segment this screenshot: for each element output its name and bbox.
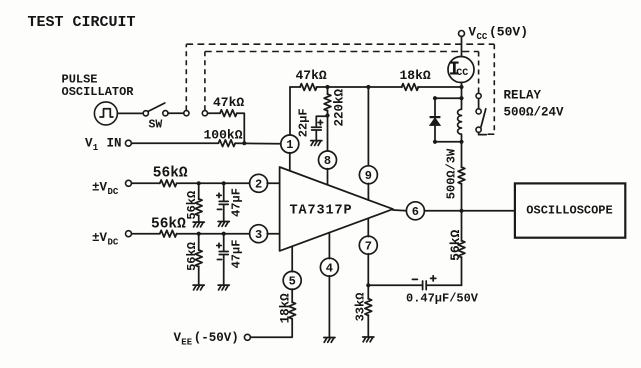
- relay coil box top: [435, 97, 462, 99]
- ground (33k): [363, 337, 374, 342]
- svg-text:OSCILLOSCOPE: OSCILLOSCOPE: [526, 204, 612, 218]
- pin 2: [250, 174, 268, 192]
- svg-text:0.47μF/50V: 0.47μF/50V: [406, 291, 479, 305]
- pin 6: [393, 209, 407, 212]
- ground (upper 56k): [193, 222, 204, 227]
- pin 5: [283, 271, 301, 289]
- svg-text:3: 3: [255, 228, 262, 242]
- wire switch D to 47k: [208, 112, 221, 114]
- wire oscillator to switch: [117, 112, 143, 114]
- ground (lower 47μF): [218, 285, 229, 290]
- terminal VCC: [459, 31, 465, 37]
- wire pin8 to op-amp: [327, 169, 329, 185]
- dashed mechanical link inner: [204, 52, 206, 111]
- resistor 220kΩ: [327, 87, 329, 94]
- node link contact C: [184, 111, 189, 116]
- dashed mechanical link outer: [185, 44, 187, 110]
- wire op-amp to pin7: [367, 218, 369, 236]
- resistor 56kΩ (node6): [461, 211, 463, 241]
- meter ICC: [448, 57, 474, 83]
- svg-text:V: V: [174, 331, 182, 345]
- svg-text:V: V: [469, 26, 477, 40]
- wire pin7 down: [367, 254, 369, 285]
- wire pin1 to top rail: [289, 87, 291, 136]
- svg-text:8: 8: [324, 154, 331, 168]
- svg-text:5: 5: [289, 275, 296, 289]
- svg-text:56kΩ: 56kΩ: [185, 242, 199, 271]
- resistor 33kΩ: [367, 285, 369, 299]
- wire to pin2: [177, 182, 250, 184]
- switch SW: [143, 111, 148, 116]
- resistor 56kΩ (upper shunt): [198, 183, 200, 199]
- wire pin3 to op-amp: [267, 233, 279, 235]
- svg-text:DC: DC: [108, 238, 119, 248]
- wire op-amp to pin4: [328, 233, 330, 259]
- wire relay to 500 ohm resistor: [461, 142, 463, 168]
- resistor 56kΩ (lower series): [160, 230, 177, 237]
- pin 7: [359, 236, 377, 254]
- wire V1 IN: [131, 142, 218, 144]
- relay contact top: [476, 93, 481, 98]
- svg-text:TEST CIRCUIT: TEST CIRCUIT: [28, 14, 136, 31]
- pulse oscillator source: [94, 102, 117, 125]
- node link contact D: [202, 111, 207, 116]
- svg-text:22μF: 22μF: [296, 108, 310, 137]
- capacitor 22μF: [316, 116, 327, 126]
- junction 47k/100k: [242, 141, 246, 145]
- svg-text:56kΩ: 56kΩ: [151, 217, 186, 233]
- svg-text:V: V: [85, 136, 93, 150]
- junction rail/ICC: [459, 85, 463, 89]
- pin 3: [250, 225, 268, 243]
- resistor 100kΩ: [218, 140, 235, 147]
- wire VDC lower: [132, 233, 160, 235]
- svg-text:56kΩ: 56kΩ: [185, 191, 199, 220]
- svg-text:IN: IN: [107, 136, 122, 150]
- wire 47k to junction: [237, 113, 245, 143]
- relay contact blade: [481, 109, 486, 127]
- wire pin2 to op-amp: [267, 182, 279, 184]
- svg-text:33kΩ: 33kΩ: [354, 293, 368, 322]
- svg-text:9: 9: [365, 169, 372, 183]
- wire contact bottom: [479, 132, 487, 134]
- relay contact bottom: [476, 127, 481, 132]
- svg-text:47kΩ: 47kΩ: [213, 95, 244, 110]
- wire 500 ohm to node6 rail: [461, 184, 463, 211]
- svg-text:47μF: 47μF: [230, 240, 244, 269]
- terminal VEE: [244, 334, 250, 340]
- top rail wire: [290, 86, 462, 88]
- svg-text:18kΩ: 18kΩ: [279, 293, 293, 324]
- svg-text:47μF: 47μF: [230, 188, 244, 217]
- wire switch link: [168, 112, 184, 114]
- wire pin9 to op-amp: [367, 183, 369, 200]
- relay contact middle: [476, 109, 481, 114]
- terminal V1 IN: [125, 140, 131, 146]
- wire 100k to pin1: [235, 142, 281, 145]
- resistor 56kΩ (lower shunt): [198, 234, 200, 251]
- svg-text:(50V): (50V): [489, 25, 528, 40]
- svg-text:4: 4: [326, 261, 333, 275]
- junction 220k/22uF: [325, 113, 329, 117]
- oscilloscope box: [515, 183, 625, 237]
- resistor 47kΩ (switch branch): [220, 110, 237, 117]
- svg-text:100kΩ: 100kΩ: [204, 128, 243, 143]
- pin 8: [319, 151, 337, 169]
- svg-text:56kΩ: 56kΩ: [153, 166, 188, 182]
- wire pin4 to ground: [328, 276, 330, 337]
- wire VDC upper: [132, 182, 160, 184]
- svg-text:SW: SW: [149, 119, 163, 132]
- capacitor 0.47μF/50V: [426, 284, 461, 286]
- op-amp TA7317P: [280, 167, 393, 251]
- svg-text:6: 6: [412, 205, 419, 219]
- svg-text:DC: DC: [108, 187, 119, 197]
- pin 1: [281, 135, 299, 153]
- svg-text:RELAY: RELAY: [504, 89, 542, 103]
- svg-text:±V: ±V: [92, 181, 108, 195]
- pin 9: [359, 166, 377, 184]
- resistor 56kΩ (upper series): [160, 180, 177, 187]
- junction rail/220k: [325, 85, 329, 89]
- ground (upper 47μF): [218, 222, 229, 227]
- ground (22μF): [311, 141, 322, 146]
- relay coil: [458, 98, 462, 142]
- svg-text:500Ω/24V: 500Ω/24V: [504, 106, 565, 120]
- svg-text:EE: EE: [181, 338, 192, 348]
- svg-text:18kΩ: 18kΩ: [400, 68, 431, 83]
- capacitor 47μF (upper): [223, 183, 225, 200]
- wire to pin3: [177, 233, 250, 235]
- svg-text:OSCILLATOR: OSCILLATOR: [62, 85, 135, 99]
- wire contact link: [478, 99, 480, 109]
- wire VCC to ICC meter: [461, 37, 463, 57]
- pin 4: [320, 258, 338, 276]
- svg-text:TA7317P: TA7317P: [290, 204, 353, 219]
- capacitor 47μF (lower): [223, 234, 225, 251]
- resistor 18kΩ (pin5): [291, 289, 293, 303]
- resistor 18kΩ (top rail): [402, 84, 419, 91]
- resistor 500Ω/3W: [458, 167, 465, 184]
- svg-text:2: 2: [255, 178, 262, 192]
- wire ICC to rail: [461, 82, 463, 98]
- svg-text:(-50V): (-50V): [194, 331, 239, 345]
- ground (lower 56k): [193, 285, 204, 290]
- svg-text:CC: CC: [456, 68, 468, 79]
- svg-text:220kΩ: 220kΩ: [332, 88, 346, 126]
- svg-text:7: 7: [365, 239, 372, 253]
- relay box bottom: [435, 141, 462, 143]
- svg-text:1: 1: [93, 143, 99, 153]
- wire op-amp to pin5: [291, 246, 293, 271]
- svg-text:±V: ±V: [92, 231, 108, 245]
- svg-text:500Ω/3W: 500Ω/3W: [445, 148, 459, 199]
- svg-text:CC: CC: [477, 32, 488, 42]
- svg-text:1: 1: [286, 138, 293, 152]
- resistor 47kΩ (top rail): [300, 84, 317, 91]
- diode (flyback): [434, 98, 436, 117]
- wire rail to pin9: [367, 87, 369, 166]
- junction rail/pin9: [366, 85, 370, 89]
- wire node6 rail: [424, 210, 515, 212]
- svg-text:47kΩ: 47kΩ: [296, 68, 327, 83]
- ground (pin4): [324, 338, 335, 343]
- svg-text:56kΩ: 56kΩ: [448, 230, 463, 261]
- wire pin1 to op-amp: [289, 153, 291, 171]
